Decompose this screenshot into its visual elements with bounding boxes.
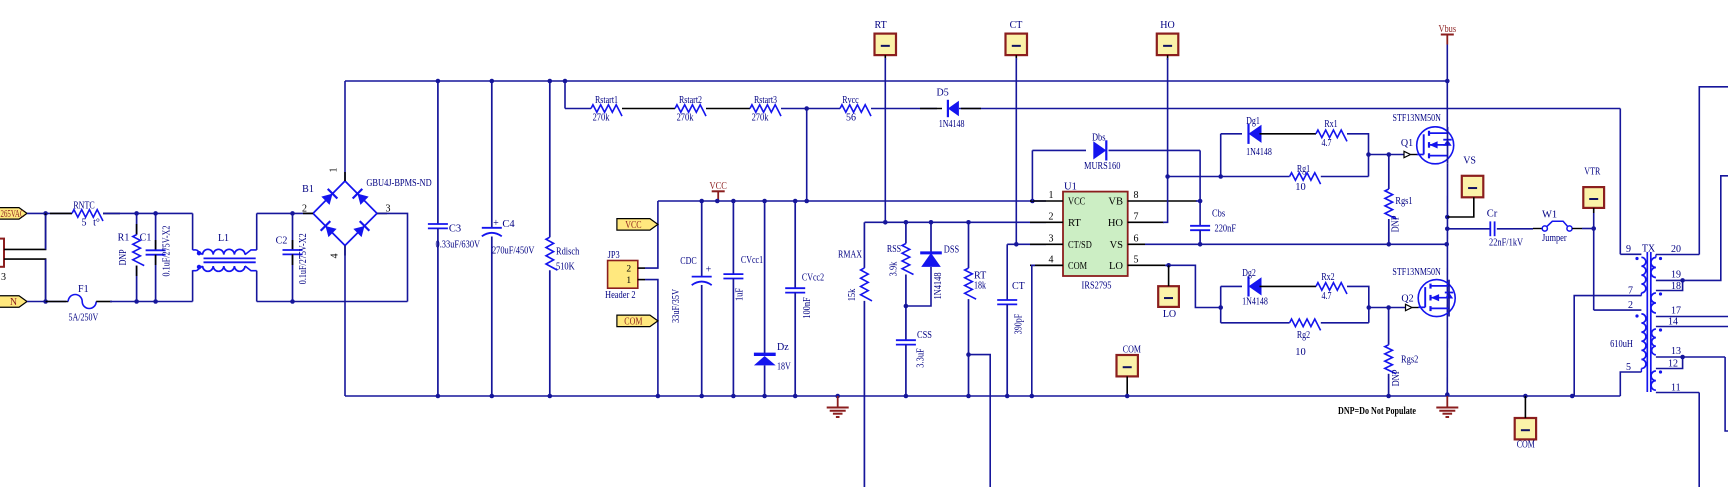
wire N to F1 (27, 301, 66, 303)
wire Rg2 line (1221, 322, 1290, 324)
svg-text:VS: VS (1110, 240, 1124, 251)
wire VB pin8 (1128, 200, 1197, 202)
wire L1 bottom out (256, 271, 258, 302)
svg-text:CVcc2: CVcc2 (802, 273, 824, 284)
bridge diode lower-right (353, 221, 370, 238)
bridge stub left (303, 212, 313, 214)
resistor R1 (136, 213, 138, 234)
svg-text:7: 7 (1134, 211, 1139, 222)
bridge stub bottom (344, 246, 346, 256)
svg-text:20: 20 (1671, 244, 1681, 255)
svg-text:1N4148: 1N4148 (1246, 147, 1272, 158)
transformer TX core (1646, 252, 1648, 392)
resistor Rstart1 (591, 105, 622, 116)
svg-text:Header 2: Header 2 (605, 290, 636, 301)
svg-text:270k: 270k (752, 113, 769, 124)
net flag 265VAC (0, 208, 27, 220)
wire CT/SD pin3 line (1007, 243, 1046, 245)
ground symbol right (1446, 396, 1448, 407)
svg-text:2: 2 (1049, 211, 1054, 222)
wire Q1 source down (1446, 164, 1448, 396)
terminal COM mid (1117, 355, 1138, 376)
svg-text:1N4148: 1N4148 (933, 272, 944, 299)
transistor Q2 STF13NM50N (1418, 280, 1455, 317)
wire TX pin19 out (1656, 279, 1683, 281)
svg-text:610uH: 610uH (1610, 339, 1633, 350)
svg-text:COM: COM (624, 317, 642, 328)
svg-text:Rgs2: Rgs2 (1401, 355, 1418, 366)
svg-text:3.9k: 3.9k (889, 261, 900, 276)
svg-text:Rstart3: Rstart3 (754, 95, 777, 106)
wire VCC line (658, 200, 1046, 202)
svg-text:L1: L1 (218, 233, 229, 244)
capacitor Cr 22nF/1kV (1447, 228, 1490, 230)
wire Dg1 branch (1220, 134, 1222, 177)
svg-text:18k: 18k (974, 281, 986, 292)
wire Q1 gate (1369, 154, 1405, 156)
svg-text:VS: VS (1463, 156, 1476, 167)
svg-text:CSS: CSS (917, 330, 932, 341)
wire VB vertical (1199, 150, 1201, 225)
svg-text:4: 4 (330, 254, 341, 259)
svg-text:5A/250V: 5A/250V (69, 313, 99, 324)
capacitor C2 (292, 213, 294, 250)
bridge diode upper-right (353, 189, 370, 206)
svg-text:22nF/1kV: 22nF/1kV (1489, 238, 1523, 249)
power symbol Vbus (1441, 34, 1454, 36)
svg-text:F1: F1 (78, 284, 89, 295)
svg-text:GBU4J-BPMS-ND: GBU4J-BPMS-ND (366, 178, 432, 189)
resistor Rg2 (1290, 319, 1321, 330)
wire rail to Rstart row (564, 81, 566, 109)
transformer TX secondary 18-17 (1651, 293, 1656, 313)
resistor Rstart2 (675, 105, 706, 116)
svg-text:Rstart1: Rstart1 (595, 95, 618, 106)
svg-text:265VAC: 265VAC (1, 209, 25, 220)
svg-text:VB: VB (1108, 197, 1123, 208)
capacitor CT 390pF (1006, 244, 1008, 300)
bridge B1 outline (313, 181, 377, 246)
svg-text:TX: TX (1642, 244, 1656, 255)
wire L1 top out (256, 213, 258, 250)
wire TX pin17 out (1656, 316, 1728, 318)
bridge stub right (377, 212, 387, 214)
resistor Rgs1 DNP (1388, 155, 1390, 190)
svg-text:DNP: DNP (1391, 215, 1402, 232)
svg-text:270k: 270k (677, 113, 694, 124)
svg-text:1: 1 (329, 168, 340, 173)
svg-text:CT/SD: CT/SD (1068, 240, 1092, 251)
svg-text:N: N (10, 297, 17, 308)
transformer TX secondary 12-11 (1651, 371, 1656, 390)
svg-text:U1: U1 (1064, 182, 1077, 193)
capacitor CSS (896, 339, 916, 341)
svg-text:C2: C2 (276, 236, 288, 247)
wire F1 to L1 (110, 301, 193, 303)
svg-text:19: 19 (1671, 270, 1681, 281)
wire connector pin L navy (45, 215, 47, 249)
wire CT terminal down (1015, 58, 1017, 244)
wire Dg2 branch (1220, 286, 1222, 322)
svg-text:C3: C3 (449, 224, 461, 235)
wire bridge pin4 down (344, 246, 346, 397)
svg-text:0.33uF/630V: 0.33uF/630V (436, 240, 481, 251)
wire RT pin2 line (865, 221, 1046, 223)
svg-text:1N4148: 1N4148 (1242, 297, 1268, 308)
svg-text:COM: COM (1123, 344, 1141, 355)
svg-text:MURS160: MURS160 (1084, 161, 1120, 172)
net flag N (0, 296, 27, 308)
wire connector pin L (4, 213, 46, 249)
transistor Q1 STF13NM50N (1417, 127, 1454, 164)
svg-text:5: 5 (1134, 254, 1139, 265)
svg-text:3.3uF: 3.3uF (916, 348, 927, 368)
wire Vbus top rail (345, 80, 1447, 82)
fuse F1 (46, 301, 69, 303)
wire W1 node to TX pin2 (1593, 213, 1595, 310)
wire Dbs VCC drop (1031, 150, 1033, 201)
bridge diode lower-left (321, 221, 338, 238)
svg-text:56: 56 (846, 113, 856, 124)
svg-text:6: 6 (1134, 233, 1139, 244)
svg-text:COM: COM (1517, 439, 1535, 450)
svg-text:Dbs: Dbs (1092, 133, 1106, 144)
wire TX pin5 to gnd (1620, 372, 1641, 396)
svg-text:1N4148: 1N4148 (939, 119, 965, 130)
wire bridge pin3 loop (377, 213, 408, 301)
wire LO pin5 (1128, 264, 1166, 266)
capacitor C3 (437, 81, 439, 224)
svg-text:LO: LO (1109, 261, 1123, 272)
wire VCC feed drop (806, 109, 808, 202)
svg-text:1: 1 (1049, 190, 1054, 201)
svg-text:Jumper: Jumper (1542, 233, 1567, 244)
wire TX pin7 to gnd (1574, 296, 1641, 396)
wire Rstart3-Rvcc (781, 108, 840, 110)
svg-text:5: 5 (82, 218, 87, 229)
wire HO pin7 (1128, 221, 1164, 223)
wire JP3 pin1 to COM (645, 280, 658, 396)
svg-text:t°: t° (93, 218, 100, 229)
wire RT terminal down (884, 58, 886, 222)
svg-text:18: 18 (1671, 281, 1681, 292)
svg-text:VCC: VCC (625, 220, 642, 231)
thermistor RNTC (50, 212, 72, 214)
svg-text:15k: 15k (847, 288, 858, 301)
wire Q2 gate (1369, 307, 1406, 309)
svg-text:+: + (493, 218, 499, 229)
diode Dg1 1N4148 (1249, 125, 1262, 143)
svg-text:DNP: DNP (118, 249, 129, 265)
svg-text:DSS: DSS (944, 245, 960, 256)
net flag COM (617, 315, 658, 327)
resistor Rx2 (1316, 283, 1347, 294)
diode D5 1N4148 (948, 101, 959, 116)
svg-text:1: 1 (626, 276, 631, 286)
svg-text:Cr: Cr (1487, 209, 1498, 220)
svg-text:CDC: CDC (680, 256, 697, 267)
svg-text:13: 13 (1671, 346, 1681, 357)
svg-text:COM: COM (1068, 261, 1088, 272)
resistor Rstart3 (750, 105, 781, 116)
svg-text:+: + (706, 265, 712, 276)
wire TX pin14 out (1656, 326, 1728, 328)
svg-text:Vbus: Vbus (1438, 24, 1456, 35)
wire Rvcc to D5 (871, 108, 937, 110)
wire TX pin9 drop (1619, 109, 1621, 255)
svg-text:270k: 270k (593, 113, 610, 124)
svg-text:4.7: 4.7 (1322, 138, 1332, 149)
svg-text:C1: C1 (140, 233, 152, 244)
svg-text:Rx2: Rx2 (1321, 272, 1334, 283)
svg-text:IRS2795: IRS2795 (1082, 281, 1112, 292)
svg-text:3: 3 (1049, 233, 1054, 244)
svg-text:Dg1: Dg1 (1246, 116, 1260, 127)
svg-text:Q2: Q2 (1401, 294, 1413, 305)
svg-text:4: 4 (1049, 254, 1054, 265)
svg-text:HO: HO (1160, 20, 1174, 31)
wire HO terminal down (1167, 58, 1169, 177)
terminal VTR (1583, 187, 1604, 208)
svg-text:W1: W1 (1542, 210, 1557, 221)
resistor Rgs2 DNP (1388, 308, 1390, 345)
svg-text:RMAX: RMAX (838, 250, 863, 261)
jumper W1 (1533, 228, 1542, 230)
svg-text:RNTC: RNTC (73, 201, 95, 212)
svg-text:10: 10 (1295, 182, 1306, 193)
wire Rx1 to gate node (1347, 134, 1369, 177)
wire Rstart1-Rstart2 (622, 108, 675, 110)
svg-text:DNP: DNP (1391, 369, 1402, 386)
resistor Rg1 (1290, 173, 1321, 184)
capacitor Cbs 220nF (1190, 225, 1210, 227)
svg-text:18V: 18V (777, 362, 791, 373)
svg-text:RSS: RSS (887, 244, 901, 255)
wire Rx2 to gate node (1347, 286, 1369, 322)
capacitor C4 (491, 81, 493, 228)
wire Rg1 line (1168, 176, 1290, 178)
wire TX pin12 tap (1656, 357, 1683, 369)
wire TX pin11 out (1656, 392, 1699, 394)
svg-text:DNP=Do Not Populate: DNP=Do Not Populate (1338, 406, 1416, 417)
terminal LO (1158, 286, 1179, 307)
wire RNTC to L1 (103, 212, 193, 214)
svg-text:3: 3 (1, 272, 6, 283)
wire TX pin13 out (1656, 356, 1725, 358)
svg-text:14: 14 (1668, 317, 1678, 328)
bridge diode upper-left (321, 189, 338, 206)
svg-text:C4: C4 (502, 219, 515, 230)
svg-text:R1: R1 (118, 233, 130, 244)
svg-text:8: 8 (1134, 190, 1139, 201)
svg-text:JP3: JP3 (608, 250, 620, 261)
diode Dbs MURS160 (1032, 149, 1086, 151)
svg-text:Rvcc: Rvcc (842, 95, 859, 106)
svg-text:510K: 510K (556, 261, 575, 272)
svg-text:9: 9 (1626, 244, 1631, 255)
transformer TX secondary 14-13 (1652, 329, 1656, 355)
svg-text:0.1uF/275V-X2: 0.1uF/275V-X2 (298, 233, 309, 284)
svg-text:Rdisch: Rdisch (556, 247, 580, 258)
capacitor CVcc2 (794, 201, 796, 288)
terminal VS (1462, 176, 1484, 198)
capacitor CDC (701, 201, 703, 277)
svg-text:CVcc1: CVcc1 (741, 255, 763, 266)
svg-text:Dg2: Dg2 (1242, 268, 1256, 279)
wire Vbus down to Q1 drain (1446, 45, 1448, 128)
wire connector pin N (4, 259, 46, 301)
resistor Rx1 (1316, 130, 1347, 141)
svg-text:VTR: VTR (1584, 167, 1600, 178)
wire 265VAC to RNTC (27, 212, 72, 214)
svg-text:2: 2 (1628, 300, 1633, 311)
svg-text:D5: D5 (936, 88, 948, 99)
zener Dz 18V (764, 201, 766, 354)
header JP3 (608, 261, 638, 289)
terminal COM right (1515, 418, 1536, 439)
resistor Rvcc (840, 105, 871, 116)
wire VCC flag drop (645, 201, 658, 268)
svg-text:0.1uF/275V-X2: 0.1uF/275V-X2 (162, 226, 173, 277)
IC pin4 COM wire (1033, 264, 1063, 266)
svg-text:12: 12 (1668, 359, 1678, 370)
diode DSS 1N4148 (930, 222, 932, 253)
op IC U1 IRS2795 box (1063, 192, 1128, 276)
IC U1 left pins (1030, 200, 1063, 202)
capacitor CVcc1 (732, 201, 734, 274)
svg-text:RT: RT (875, 20, 887, 31)
svg-text:Rgs1: Rgs1 (1395, 196, 1412, 207)
net flag VCC (617, 219, 658, 231)
svg-text:Rstart2: Rstart2 (679, 95, 702, 106)
svg-text:Rg2: Rg2 (1297, 330, 1310, 341)
svg-text:Cbs: Cbs (1212, 209, 1225, 220)
svg-text:CT: CT (1012, 281, 1025, 292)
resistor Rdisch (549, 81, 551, 237)
terminal HO (1157, 34, 1179, 56)
connector J1 (cut at edge) (0, 239, 4, 267)
wire ground rail (345, 395, 1620, 397)
wire bridge top to bus (344, 81, 346, 181)
svg-text:Dz: Dz (777, 342, 789, 353)
svg-text:HO: HO (1108, 218, 1124, 229)
wire VS pin6 line (1128, 243, 1145, 245)
svg-text:4.7: 4.7 (1322, 291, 1332, 302)
svg-text:VCC: VCC (1068, 197, 1085, 208)
resistor RMAX (863, 221, 865, 223)
terminal RT (875, 34, 897, 56)
capacitor C1 (155, 213, 157, 250)
svg-text:17: 17 (1671, 306, 1681, 317)
svg-text:RT: RT (1068, 218, 1081, 229)
TX phase dots (1635, 257, 1638, 260)
svg-text:270uF/450V: 270uF/450V (492, 246, 535, 257)
svg-text:STF13NM50N: STF13NM50N (1393, 113, 1441, 124)
wire connector pin N navy (45, 259, 47, 301)
wire TX pin20 out (1656, 254, 1699, 256)
power symbol VCC (712, 190, 725, 192)
svg-text:STF13NM50N: STF13NM50N (1392, 267, 1440, 278)
svg-text:220nF: 220nF (1215, 224, 1237, 235)
svg-text:2: 2 (626, 265, 631, 275)
svg-text:1uF: 1uF (735, 288, 746, 301)
svg-text:33uF/35V: 33uF/35V (671, 289, 682, 323)
svg-text:100nF: 100nF (802, 297, 813, 319)
svg-text:390pF: 390pF (1014, 313, 1025, 334)
svg-text:Rx1: Rx1 (1324, 119, 1337, 130)
svg-text:CT: CT (1010, 20, 1023, 31)
wire D5 to TX pin9 net (959, 108, 1620, 110)
svg-text:LO: LO (1163, 309, 1176, 320)
svg-text:VCC: VCC (710, 181, 727, 192)
wire Rstart2-Rstart3 (706, 108, 750, 110)
wire TX pin18 tap (1656, 280, 1683, 290)
svg-text:B1: B1 (302, 184, 314, 195)
svg-text:Rg1: Rg1 (1297, 164, 1310, 175)
svg-text:Q1: Q1 (1401, 138, 1413, 149)
wire RT branch to edge (969, 355, 991, 487)
ground symbol left (837, 396, 839, 407)
diode Dg2 1N4148 (1249, 277, 1262, 295)
svg-text:10: 10 (1295, 347, 1306, 358)
resistor RT 18k (968, 222, 970, 268)
resistor RSS (905, 222, 907, 243)
terminal CT (1006, 34, 1028, 56)
